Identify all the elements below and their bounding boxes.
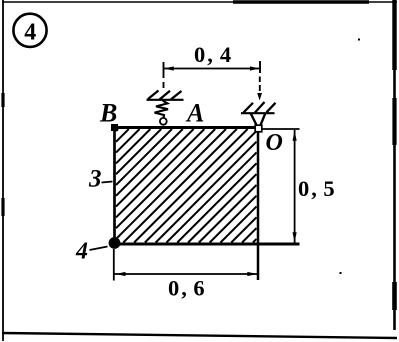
leader line for node 3 xyxy=(102,182,113,183)
arrowhead 0,6 right xyxy=(247,272,257,276)
svg-text:3: 3 xyxy=(88,166,102,193)
dimension 0,5 top extension xyxy=(262,128,300,130)
corner dot at B xyxy=(111,124,118,131)
pin support O hatch strokes xyxy=(244,102,276,113)
dimension 0,4 right extension (dashed) xyxy=(259,61,261,91)
arrowhead 0,5 up xyxy=(293,131,297,141)
speck xyxy=(358,39,360,41)
spring support ceiling xyxy=(147,99,184,101)
frame right border thick blob xyxy=(392,98,396,145)
plate right edge (extends down as dim extension) xyxy=(257,127,260,280)
frame right border xyxy=(393,0,396,330)
arrowhead 0,4 left xyxy=(164,66,174,70)
arrowhead 0,4 right xyxy=(250,66,260,70)
svg-text:4: 4 xyxy=(24,20,36,46)
svg-text:4: 4 xyxy=(75,239,88,265)
frame right border thick blob xyxy=(392,282,397,310)
svg-text:O: O xyxy=(266,130,283,156)
svg-text:A: A xyxy=(185,99,204,128)
dimension 0,5 line xyxy=(294,130,296,243)
dimension 0,6 line xyxy=(115,273,259,275)
leader line for node 4 xyxy=(90,247,108,251)
frame left border blob xyxy=(1,93,4,107)
plate bottom edge (extends right as dim extension) xyxy=(113,243,300,246)
dimension 0,6 left extension xyxy=(113,249,115,281)
spring element xyxy=(155,100,169,119)
dimension 0,4 line xyxy=(164,68,260,70)
frame top border xyxy=(2,1,397,3)
pin support O ceiling xyxy=(241,112,275,114)
hatching of plate xyxy=(116,129,257,243)
pin support O triangle xyxy=(251,113,266,127)
frame left border blob xyxy=(1,198,4,216)
svg-text:0,4: 0,4 xyxy=(194,42,233,67)
task number circle xyxy=(13,14,46,47)
spring support hatch strokes xyxy=(148,91,182,100)
spring end circle xyxy=(160,118,167,125)
arrowhead on pin extension pointing down xyxy=(257,93,262,101)
dimension 0,4 left extension xyxy=(163,62,165,88)
svg-text:0,5: 0,5 xyxy=(298,176,337,201)
frame bottom border xyxy=(2,333,397,338)
arrowhead 0,5 down xyxy=(293,232,297,242)
frame top border thick segment xyxy=(233,0,369,4)
svg-text:0,6: 0,6 xyxy=(168,275,207,300)
frame left border xyxy=(2,0,4,341)
plate top edge xyxy=(113,126,259,129)
pin square at O xyxy=(255,125,262,132)
frame right border thick blob xyxy=(392,0,396,70)
arrowhead 0,6 left xyxy=(116,272,126,276)
svg-text:B: B xyxy=(99,98,117,127)
node point 4 (filled circle) xyxy=(109,237,121,249)
speck xyxy=(340,272,342,274)
plate left edge xyxy=(113,127,116,245)
